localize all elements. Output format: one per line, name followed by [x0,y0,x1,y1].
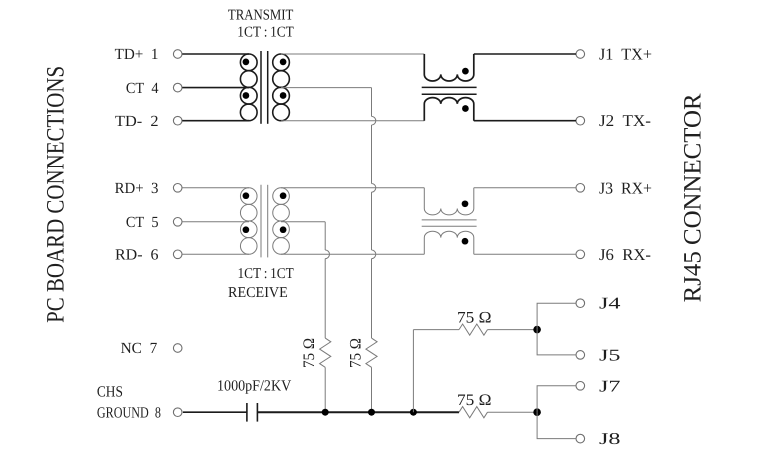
choke L2 dot bottom [462,238,469,245]
wire R1 to ground rail [324,367,326,412]
svg-text:75 Ω: 75 Ω [457,310,492,327]
pin 1 TD+ [173,50,182,59]
pin 6 RD- [173,250,182,259]
junction dot rail at R2 [368,409,375,416]
wire R2 to ground rail [371,367,373,412]
svg-text:J6 RX-: J6 RX- [599,245,651,264]
wire T2 secondary bottom to L2 [281,253,424,255]
svg-text:RD+ 3: RD+ 3 [115,180,159,197]
pin 7 NC [173,344,182,353]
resistor R2 75ohm transmit CT [366,338,377,367]
wire CT pin4 to T1 [182,87,249,89]
choke L1 bottom winding [424,98,474,121]
svg-text:RECEIVE: RECEIVE [228,285,288,301]
wire L1 to J2 [474,120,576,122]
wire R4 to J7/J8 node [488,411,538,413]
capacitor C1 1000pF plate right [256,403,258,422]
junction dot rail at R1 [322,409,329,416]
pin J3 [576,184,585,193]
transformer T1 secondary dot lower [280,92,287,99]
wire T1 CT vertical to R2 [371,259,373,339]
transformer T1 primary dot lower [243,92,250,99]
wire node up to J7 [537,386,576,412]
pin J1 [576,50,585,59]
svg-text:TRANSMIT: TRANSMIT [228,7,293,23]
pin J6 [576,250,585,259]
choke L1 core [422,86,477,88]
capacitor C1 1000pF plate left [246,403,248,422]
wire T1 secondary bottom to L1 [281,120,424,122]
wire T1 secondary top to L1 [281,53,424,55]
wire RD+ pin3 to T2 [182,187,249,189]
svg-text:1CT : 1CT: 1CT : 1CT [238,266,294,282]
wire hop over J6 wire left [325,250,329,259]
pin J8 [576,434,585,443]
wire T2 CT vertical upper [324,222,326,250]
wire hop over J6 wire [372,250,376,259]
svg-text:J2 TX-: J2 TX- [599,111,651,130]
svg-text:J1 TX+: J1 TX+ [599,45,652,64]
wire TD- pin2 to T1 [182,120,249,122]
wire node down to J8 [537,412,576,438]
wire T1 secondary CT horizontal [281,87,372,89]
wire node up to J4 [537,303,576,329]
wire T1 CT vertical mid1 [371,125,373,184]
wire hop over J3 wire [372,184,376,193]
wire hop over J2 wire [372,116,376,125]
transformer T1 secondary dot upper [280,59,287,66]
svg-text:CT 4: CT 4 [126,80,159,97]
svg-text:75 Ω: 75 Ω [301,338,318,368]
svg-text:TD- 2: TD- 2 [115,113,159,130]
junction dot rail at J4 branch [410,409,417,416]
svg-text:PC BOARD CONNECTIONS: PC BOARD CONNECTIONS [43,66,70,323]
pin 2 TD- [173,116,182,125]
transformer T2 core [260,185,262,258]
pin J4 [576,299,585,308]
pin J2 [576,116,585,125]
resistor R3 75ohm [459,324,488,335]
choke L2 dot top [462,200,469,207]
pin J7 [576,382,585,391]
transformer T1 primary winding [240,54,257,71]
wire L2 to J3 [474,187,576,189]
svg-text:J3 RX+: J3 RX+ [599,178,652,197]
wire TD+ pin1 to T1 [182,53,249,55]
wire node down to J5 [537,330,576,355]
choke L2 top winding [424,188,474,215]
svg-text:CT 5: CT 5 [126,214,159,231]
svg-text:75 Ω: 75 Ω [457,392,492,409]
choke L1 dot bottom [462,105,469,112]
svg-text:75 Ω: 75 Ω [347,338,364,368]
wire L2 to J6 [474,253,576,255]
svg-text:RJ45 CONNECTOR: RJ45 CONNECTOR [680,93,707,302]
wire R3 to J4/J5 node [488,329,538,331]
wire T2 CT vertical to R1 [324,259,326,339]
ground rail [257,411,459,413]
svg-text:J7: J7 [599,376,621,395]
transformer T1 core [260,51,262,124]
transformer T1 secondary winding [273,54,290,71]
svg-text:TD+ 1: TD+ 1 [115,46,159,63]
wire rail up to R3 [412,330,414,413]
transformer T2 primary dot lower [243,226,250,233]
svg-text:1CT : 1CT: 1CT : 1CT [237,25,293,41]
wire T2 secondary top to L2 [281,187,424,189]
svg-text:1000pF/2KV: 1000pF/2KV [217,378,292,395]
pin J5 [576,351,585,360]
transformer T2 secondary dot lower [280,226,287,233]
choke L1 top winding [424,54,474,81]
transformer T2 primary dot upper [243,192,250,199]
wire T1 CT vertical mid2 [371,192,373,250]
svg-text:RD- 6: RD- 6 [115,247,159,264]
resistor R4 75ohm [459,407,488,418]
pin 4 CT [173,83,182,92]
svg-text:CHS: CHS [97,384,123,401]
svg-text:J5: J5 [599,345,621,364]
transformer T2 secondary dot upper [280,192,287,199]
svg-text:J4: J4 [599,294,621,313]
transformer T2 primary winding [240,188,257,205]
pin 8 CHS GROUND [173,408,182,417]
wire pin8 to capacitor [183,411,247,413]
wire T2 secondary CT horizontal [281,221,325,223]
wire RD- pin6 to T2 [182,253,249,255]
svg-text:J8: J8 [599,429,621,448]
junction dot J7/J8 node [533,408,541,416]
choke L2 bottom winding [424,231,474,254]
svg-text:GROUND 8: GROUND 8 [97,405,161,422]
wire CT pin5 to T2 [182,221,249,223]
wire to R3 [413,329,459,331]
resistor R1 75ohm receive CT [320,338,331,367]
junction dot J4/J5 node [533,326,541,334]
choke L2 core [422,219,477,221]
transformer T1 primary dot upper [243,59,250,66]
pin 3 RD+ [173,184,182,193]
wire L1 to J1 [474,53,576,55]
wire T1 CT vertical upper [371,88,373,117]
pin 5 CT [173,218,182,227]
transformer T2 secondary winding [273,188,290,205]
svg-text:NC 7: NC 7 [121,340,158,357]
choke L1 dot top [462,68,469,75]
